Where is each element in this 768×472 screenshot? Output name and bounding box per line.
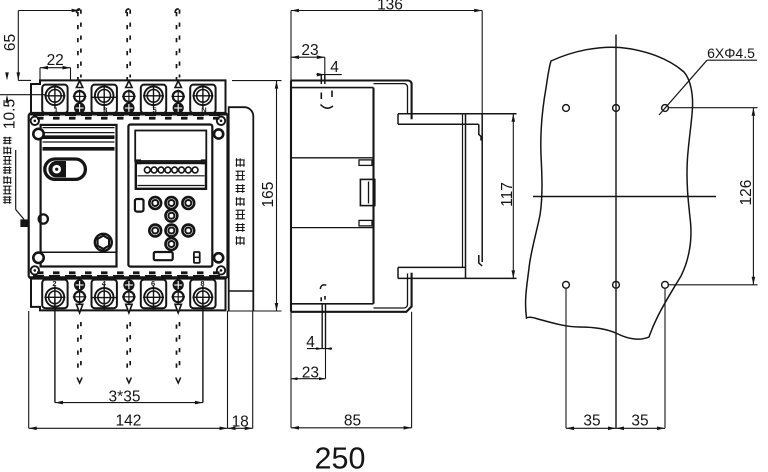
svg-text:85: 85 bbox=[344, 412, 361, 429]
svg-text:23: 23 bbox=[301, 42, 318, 59]
svg-text:4: 4 bbox=[306, 334, 315, 351]
svg-text:18: 18 bbox=[232, 413, 249, 430]
svg-text:23: 23 bbox=[302, 364, 319, 381]
svg-text:5: 5 bbox=[153, 106, 157, 115]
svg-text:142: 142 bbox=[115, 413, 141, 430]
svg-text:N: N bbox=[201, 106, 206, 115]
svg-text:35: 35 bbox=[631, 413, 648, 430]
svg-text:3: 3 bbox=[103, 106, 107, 115]
svg-text:65: 65 bbox=[2, 34, 19, 51]
svg-text:126: 126 bbox=[738, 180, 755, 206]
svg-text:35: 35 bbox=[583, 413, 600, 430]
svg-text:1: 1 bbox=[54, 106, 58, 115]
svg-text:10.5: 10.5 bbox=[2, 99, 19, 129]
svg-text:117: 117 bbox=[499, 182, 516, 207]
svg-text:136: 136 bbox=[377, 0, 403, 14]
svg-text:22: 22 bbox=[47, 52, 64, 69]
svg-text:8: 8 bbox=[200, 279, 204, 288]
svg-text:4: 4 bbox=[330, 59, 339, 76]
svg-text:165: 165 bbox=[260, 182, 277, 208]
svg-text:6: 6 bbox=[151, 279, 155, 288]
svg-text:2: 2 bbox=[52, 279, 56, 288]
svg-text:3*35: 3*35 bbox=[109, 389, 141, 406]
svg-text:6XΦ4.5: 6XΦ4.5 bbox=[707, 45, 755, 61]
svg-text:250: 250 bbox=[315, 441, 366, 472]
